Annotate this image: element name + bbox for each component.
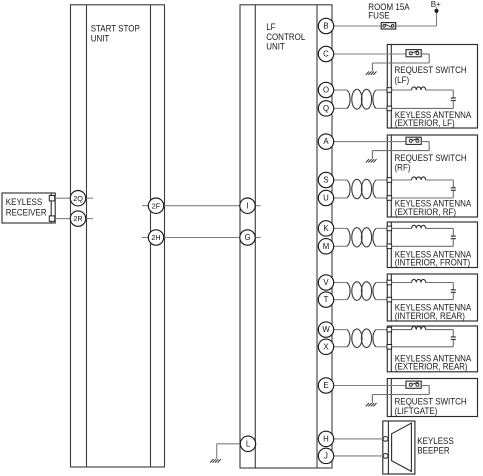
svg-text:KEYLESS: KEYLESS	[417, 436, 453, 446]
svg-text:Q: Q	[323, 104, 329, 113]
svg-text:(INTERIOR, REAR): (INTERIOR, REAR)	[395, 311, 465, 321]
svg-text:S: S	[323, 176, 328, 185]
svg-text:REQUEST SWITCH: REQUEST SWITCH	[395, 397, 467, 407]
svg-text:B: B	[323, 22, 328, 31]
svg-text:T: T	[324, 295, 329, 304]
svg-text:2F: 2F	[152, 201, 161, 210]
svg-text:RECEIVER: RECEIVER	[6, 208, 47, 218]
svg-text:G: G	[244, 233, 250, 242]
svg-text:BEEPER: BEEPER	[417, 445, 449, 455]
svg-text:(LF): (LF)	[395, 75, 410, 85]
svg-text:M: M	[323, 242, 330, 251]
svg-text:J: J	[324, 452, 328, 461]
svg-text:E: E	[323, 381, 328, 390]
svg-text:(LIFTGATE): (LIFTGATE)	[395, 406, 438, 416]
svg-text:FUSE: FUSE	[368, 10, 389, 20]
svg-text:A: A	[323, 137, 329, 146]
svg-text:REQUEST SWITCH: REQUEST SWITCH	[395, 153, 467, 163]
svg-text:(EXTERIOR, REAR): (EXTERIOR, REAR)	[395, 362, 468, 372]
svg-text:(INTERIOR, FRONT): (INTERIOR, FRONT)	[395, 258, 470, 268]
svg-text:KEYLESS: KEYLESS	[6, 197, 42, 207]
svg-text:UNIT: UNIT	[91, 34, 110, 44]
svg-text:(RF): (RF)	[395, 163, 411, 173]
svg-text:2Q: 2Q	[73, 194, 83, 203]
svg-text:B+: B+	[431, 0, 441, 9]
svg-text:X: X	[323, 342, 329, 351]
svg-text:K: K	[323, 224, 329, 233]
svg-text:(EXTERIOR, LF): (EXTERIOR, LF)	[395, 118, 455, 128]
svg-text:O: O	[323, 86, 329, 95]
svg-text:V: V	[323, 278, 329, 287]
svg-text:C: C	[323, 50, 329, 59]
svg-text:W: W	[322, 325, 330, 334]
svg-text:CONTROL: CONTROL	[266, 32, 305, 42]
svg-text:H: H	[323, 435, 329, 444]
svg-text:LF: LF	[266, 22, 276, 32]
svg-text:2R: 2R	[73, 214, 82, 223]
svg-text:2H: 2H	[151, 233, 160, 242]
svg-text:REQUEST SWITCH: REQUEST SWITCH	[395, 65, 467, 75]
svg-text:UNIT: UNIT	[266, 42, 285, 52]
svg-text:START STOP: START STOP	[91, 23, 140, 33]
svg-text:U: U	[323, 194, 329, 203]
svg-text:I: I	[246, 201, 248, 210]
svg-text:L: L	[246, 439, 251, 448]
svg-text:(EXTERIOR, RF): (EXTERIOR, RF)	[395, 207, 456, 217]
